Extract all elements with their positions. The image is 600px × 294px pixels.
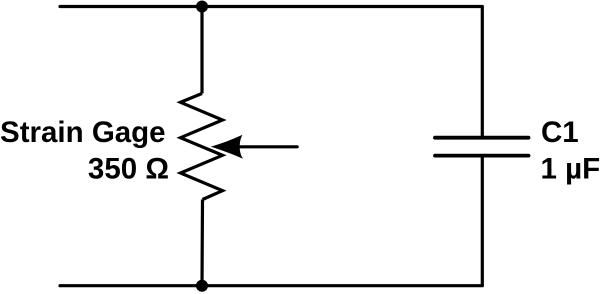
- resistor zigzag (strain gage): [181, 94, 223, 200]
- node: top junction dot: [196, 1, 208, 13]
- wire: right vertical upper segment: [481, 7, 484, 137]
- wiper arrowhead: [211, 135, 243, 159]
- svg-text:1 µF: 1 µF: [541, 153, 600, 186]
- svg-text:Strain Gage: Strain Gage: [0, 116, 166, 149]
- wire: right vertical lower segment: [481, 157, 484, 285]
- node: bottom junction dot: [196, 280, 208, 292]
- wiper arrow shaft: [240, 145, 297, 148]
- wire: resistor upper lead: [200, 7, 203, 94]
- svg-text:350 Ω: 350 Ω: [88, 153, 169, 186]
- wire: top rail: [60, 5, 482, 8]
- wire: bottom rail: [60, 284, 482, 287]
- capacitor C1 top plate: [435, 136, 529, 140]
- wire: resistor lower lead: [200, 200, 204, 286]
- capacitor C1 bottom plate: [435, 154, 529, 158]
- svg-text:C1: C1: [541, 116, 579, 149]
